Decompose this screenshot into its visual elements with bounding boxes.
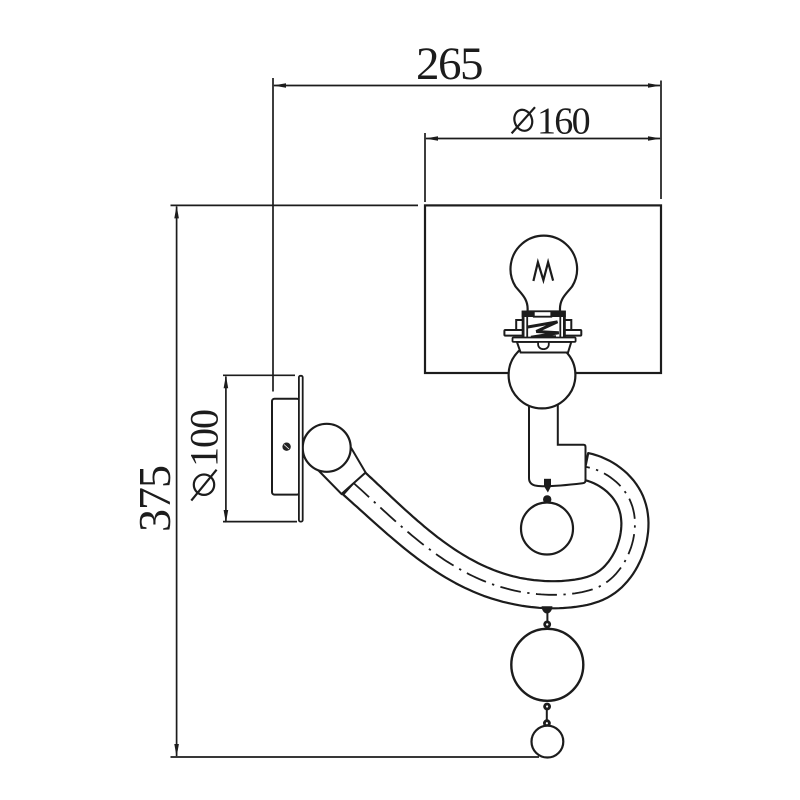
svg-text:160: 160 [537,101,590,143]
svg-text:265: 265 [416,38,482,90]
svg-text:100: 100 [182,410,227,467]
svg-text:375: 375 [129,466,180,532]
